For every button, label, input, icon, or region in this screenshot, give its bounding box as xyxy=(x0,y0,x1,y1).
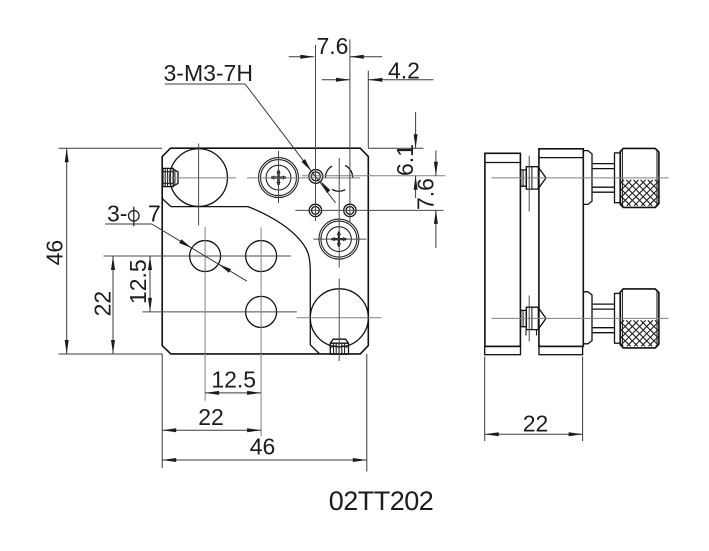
knurled lock screw bottom xyxy=(330,339,348,354)
large bore top-left xyxy=(170,149,228,207)
centerline column screw U2 xyxy=(338,158,340,361)
hole phi7 #1 xyxy=(190,241,221,272)
centerline screw U1 vertical xyxy=(278,151,280,203)
dimension 7.6 right xyxy=(413,151,439,249)
side view main bar xyxy=(539,149,583,347)
centerline column M3 right xyxy=(349,40,351,223)
tapped hole M3 row2 left xyxy=(309,204,321,216)
knurled knob bottom xyxy=(620,289,659,348)
boss bottom xyxy=(583,292,592,344)
flange top xyxy=(615,153,621,203)
dimension 46 bottom xyxy=(162,434,367,463)
dimension 46 left xyxy=(42,148,69,354)
centerline row2 holes xyxy=(295,209,443,211)
svg-text:46: 46 xyxy=(250,434,276,460)
extension lines bottom xyxy=(162,354,367,472)
extension line row1 right xyxy=(302,175,446,177)
hole phi7 #2 xyxy=(246,241,277,272)
label 3-M3-7H with leader xyxy=(164,60,336,203)
boss top xyxy=(583,151,592,205)
label 3-phi7 with leader xyxy=(105,201,247,282)
tapped hole M3 top xyxy=(309,170,323,184)
svg-text:22: 22 xyxy=(198,404,224,430)
centerline screw U2 xyxy=(314,238,367,240)
side view foot right xyxy=(539,346,583,354)
svg-text:46: 46 xyxy=(42,240,68,266)
svg-text:7.6: 7.6 xyxy=(317,33,349,59)
extension line top edge right xyxy=(368,147,423,149)
tapped hole M3 row2 right xyxy=(344,204,356,216)
centerline phi7 row1 xyxy=(104,255,291,257)
dimension 22 side xyxy=(485,357,583,442)
set screw top xyxy=(521,167,546,189)
svg-text:12.5: 12.5 xyxy=(125,259,151,304)
knurled knob top xyxy=(620,148,659,207)
set screw bottom xyxy=(521,307,546,335)
svg-text:22: 22 xyxy=(523,411,549,437)
svg-text:3-M3-7H: 3-M3-7H xyxy=(164,60,253,86)
shaft top xyxy=(592,164,615,193)
dimension 4.2 top xyxy=(322,58,434,84)
centerline column phi7 left xyxy=(204,227,206,401)
dashed seat circle xyxy=(325,165,352,191)
large bore bottom-right xyxy=(310,289,368,347)
centerline row1 screws xyxy=(163,177,360,179)
dimension 6.1 right xyxy=(392,112,418,198)
centerline phi7 row2 xyxy=(143,311,297,313)
centerline column phi7 right xyxy=(260,227,262,436)
screw U1 top (phillips) xyxy=(259,158,299,198)
svg-text:7.6: 7.6 xyxy=(413,178,439,210)
pocket step contour xyxy=(162,199,319,354)
flange bottom xyxy=(615,293,621,343)
centerline bore bottom-right xyxy=(297,317,382,319)
svg-text:22: 22 xyxy=(89,291,115,317)
centerline set screw bottom vertical xyxy=(528,296,530,342)
extension lines left xyxy=(59,148,163,354)
side view foot left xyxy=(485,346,521,354)
centerline bore top-left vertical xyxy=(198,144,200,226)
centerline side bottom row xyxy=(492,317,669,319)
svg-text:6.1: 6.1 xyxy=(392,144,418,176)
dimension 7.6 top xyxy=(289,33,383,59)
svg-text:7: 7 xyxy=(148,201,161,227)
dimension 22 left xyxy=(89,256,115,354)
centerline column M3 left xyxy=(315,45,317,221)
svg-text:02TT202: 02TT202 xyxy=(329,486,434,516)
dimension 12.5 bottom xyxy=(205,367,261,395)
centerline side top row xyxy=(492,177,669,179)
side view moving plate xyxy=(485,153,521,346)
plate outline front view xyxy=(162,148,368,354)
screw U2 middle-right (phillips) xyxy=(319,219,359,259)
extension line plate right edge up xyxy=(367,71,369,149)
dimension 12.5 left xyxy=(125,256,152,312)
hole phi7 #3 xyxy=(246,296,277,327)
svg-text:4.2: 4.2 xyxy=(388,58,420,84)
dimension 22 bottom xyxy=(162,404,261,432)
centerline set screw top vertical xyxy=(528,156,530,212)
svg-text:3-: 3- xyxy=(107,201,127,227)
shaft bottom xyxy=(592,304,615,333)
knurled lock screw left xyxy=(163,168,178,186)
svg-text:12.5: 12.5 xyxy=(211,367,256,393)
